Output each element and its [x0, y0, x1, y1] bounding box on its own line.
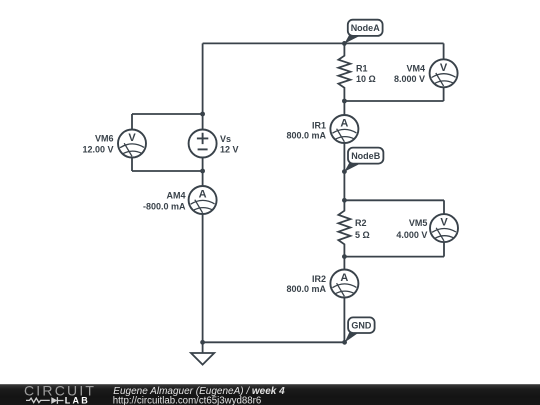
wire VM5 loop bottom horizontal: [344, 256, 444, 258]
junction at VM6 top branch: [200, 112, 205, 117]
svg-text:12 V: 12 V: [220, 144, 239, 154]
value label VM6: [82, 134, 113, 155]
node NodeB flag: [344, 148, 383, 172]
svg-text:AM4: AM4: [166, 191, 185, 201]
wire VM6 bottom stub: [131, 158, 133, 172]
value label VM4: [394, 63, 425, 84]
ammeter AM4: [189, 186, 217, 214]
svg-text:A: A: [199, 189, 207, 201]
wire IR1 bottom to R2 top (NodeB net): [343, 143, 345, 200]
wire VM4 bottom stub: [443, 87, 445, 101]
svg-text:A: A: [340, 118, 348, 130]
svg-text:5 Ω: 5 Ω: [355, 230, 370, 240]
junction at ground net left: [200, 340, 205, 345]
svg-text:VM4: VM4: [406, 63, 425, 73]
svg-text:IR1: IR1: [312, 120, 326, 130]
svg-text:VM6: VM6: [95, 134, 114, 144]
value label R1: [356, 63, 376, 84]
svg-text:NodeA: NodeA: [351, 23, 381, 33]
junction node B: [342, 169, 347, 174]
svg-text:NodeB: NodeB: [351, 151, 381, 161]
value label AM4: [143, 191, 186, 212]
svg-text:GND: GND: [351, 321, 372, 331]
value label VM5: [396, 218, 427, 240]
wire IR2 top stub: [343, 257, 345, 270]
wire VM5 bottom stub: [443, 242, 445, 257]
resistor R2: [338, 200, 350, 256]
resistor R1: [338, 43, 350, 101]
value label IR1: [286, 120, 326, 140]
wire bottom ground net horizontal: [203, 341, 345, 343]
svg-text:V: V: [128, 132, 136, 144]
value label IR2: [286, 274, 326, 294]
junction at VM6 bottom branch: [200, 169, 205, 174]
ammeter IR2: [330, 270, 358, 298]
wire VM4 loop bottom horizontal: [344, 100, 443, 102]
svg-text:Vs: Vs: [220, 134, 231, 144]
voltmeter VM6: [118, 130, 146, 158]
wire IR1 top stub: [343, 101, 345, 115]
svg-text:R1: R1: [356, 63, 368, 73]
wire VM5 top branch horizontal: [344, 199, 444, 201]
footer bar: [0, 384, 540, 405]
svg-text:800.0 mA: 800.0 mA: [286, 130, 326, 140]
wire VM6 top branch horizontal: [132, 113, 203, 115]
svg-text:VM5: VM5: [409, 218, 428, 228]
svg-text:R2: R2: [355, 218, 367, 228]
junction R2 top: [342, 198, 347, 203]
wire main vertical upper (top wire to Vs): [202, 43, 204, 129]
svg-text:V: V: [440, 217, 448, 229]
svg-text:http://circuitlab.com/ct65j3wy: http://circuitlab.com/ct65j3wyd88r6: [113, 395, 262, 405]
node GND flag: [345, 317, 375, 342]
wire Vs bottom to AM4 top: [202, 158, 204, 187]
voltage source Vs: [189, 130, 217, 158]
wire IR2 bottom to GND net: [343, 298, 345, 343]
footer CircuitLab logo: [24, 383, 96, 405]
wire top horizontal NodeA net: [203, 42, 444, 44]
node NodeA flag: [344, 20, 382, 44]
footer title text: [113, 386, 285, 405]
svg-text:IR2: IR2: [312, 274, 326, 284]
wire VM4 top stub: [443, 43, 445, 59]
value label Vs: [220, 134, 239, 155]
svg-text:4.000 V: 4.000 V: [396, 230, 427, 240]
wire VM6 top stub: [131, 114, 133, 130]
svg-text:10 Ω: 10 Ω: [356, 74, 376, 84]
voltmeter VM5: [430, 214, 458, 242]
junction node A: [342, 41, 347, 46]
wire ground stub: [202, 342, 204, 353]
junction GND flag: [342, 340, 347, 345]
junction R2 bottom: [342, 254, 347, 259]
svg-text:V: V: [440, 62, 448, 74]
svg-text:800.0 mA: 800.0 mA: [286, 284, 326, 294]
ground: [191, 353, 214, 365]
ammeter IR1: [330, 115, 358, 143]
junction R1 bottom: [342, 99, 347, 104]
svg-text:8.000 V: 8.000 V: [394, 74, 425, 84]
svg-text:A: A: [340, 272, 348, 284]
svg-text:12.00 V: 12.00 V: [82, 145, 113, 155]
value label R2: [355, 218, 370, 240]
wire VM6 bottom branch horizontal: [132, 170, 203, 172]
svg-text:LAB: LAB: [65, 395, 90, 405]
voltmeter VM4: [430, 59, 458, 87]
wire AM4 bottom to ground net: [202, 214, 204, 342]
wire VM5 top stub: [443, 200, 445, 214]
svg-text:-800.0 mA: -800.0 mA: [143, 202, 186, 212]
